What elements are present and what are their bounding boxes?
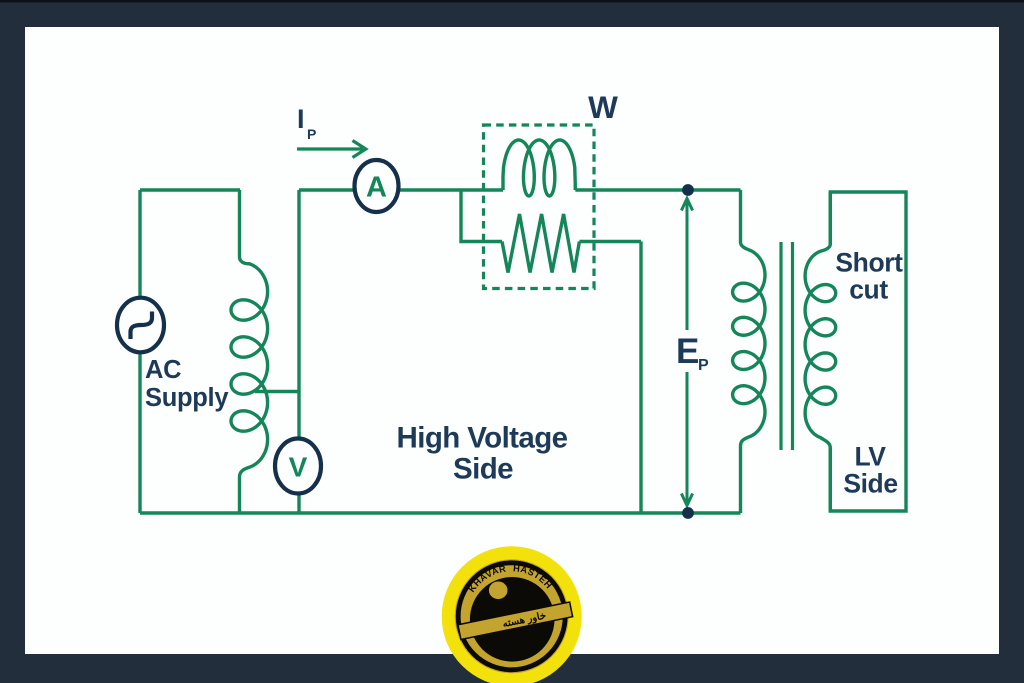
svg-text:High Voltage: High Voltage [397, 422, 568, 455]
ammeter A1 [355, 160, 399, 212]
svg-text:Supply: Supply [145, 384, 229, 412]
svg-text:A: A [366, 172, 387, 204]
arrow Ep upper [681, 199, 692, 331]
arrow Ep lower [681, 372, 692, 506]
wire: wattmeter voltage branch down [461, 190, 502, 242]
svg-text:Short: Short [835, 248, 903, 278]
logo watermark [442, 546, 582, 683]
label LV Side [843, 442, 897, 499]
wire: right vertical down to bottom [639, 242, 642, 514]
wire: wattmeter coil to transformer [575, 188, 740, 191]
AC source symbol [117, 298, 164, 353]
label AC Supply [145, 356, 229, 412]
svg-text:Side: Side [843, 469, 897, 499]
wire: main vertical branch above voltmeter [297, 190, 300, 439]
wire: bottom horizontal [140, 511, 741, 514]
logo black disc [470, 577, 555, 662]
wattmeter box dashed [484, 125, 595, 289]
wire: resistor to right vertical [579, 240, 641, 243]
node top junction [682, 184, 694, 196]
logo outer yellow disc [442, 546, 582, 683]
svg-text:LV: LV [854, 442, 886, 472]
resistor wattmeter voltage coil [502, 214, 579, 273]
wire: variac tap to voltmeter branch [255, 390, 299, 393]
label Ip [297, 104, 316, 142]
inductor T1 primary coil [733, 190, 765, 513]
svg-text:AC: AC [145, 356, 181, 384]
inductor T1 secondary coil [805, 192, 836, 511]
label Ep [676, 332, 709, 374]
svg-text:V: V [289, 452, 308, 483]
logo curved title [473, 571, 550, 593]
svg-text:W: W [588, 89, 618, 125]
wire: short-circuit loop box [830, 192, 906, 511]
wire: top to ammeter [299, 188, 355, 191]
svg-text:I: I [297, 104, 305, 134]
logo dot [489, 582, 508, 600]
logo black ring [458, 563, 565, 670]
svg-text:E: E [676, 332, 699, 371]
logo mustard disc [455, 559, 569, 673]
node bottom junction [682, 507, 694, 519]
label Short cut [835, 248, 903, 305]
transformer core [781, 242, 793, 450]
top black strip [0, 0, 1024, 3]
svg-text:cut: cut [849, 275, 888, 305]
wire: below voltmeter to bottom [297, 493, 300, 513]
label High Voltage Side [397, 422, 568, 486]
svg-text:Side: Side [453, 453, 513, 486]
arrow Ip [297, 141, 366, 158]
wire: top-left loop horizontal [140, 188, 240, 191]
svg-text:P: P [307, 126, 316, 142]
wire: left vertical below AC source [138, 352, 141, 513]
voltmeter V1 [275, 439, 321, 494]
logo band [458, 602, 573, 639]
inductor wattmeter current coil [503, 140, 575, 196]
wire: ammeter to wattmeter coil [399, 188, 503, 191]
svg-text:P: P [698, 357, 709, 374]
wire: left vertical above AC source [138, 190, 141, 298]
inductor L1 variac coil [231, 190, 268, 513]
